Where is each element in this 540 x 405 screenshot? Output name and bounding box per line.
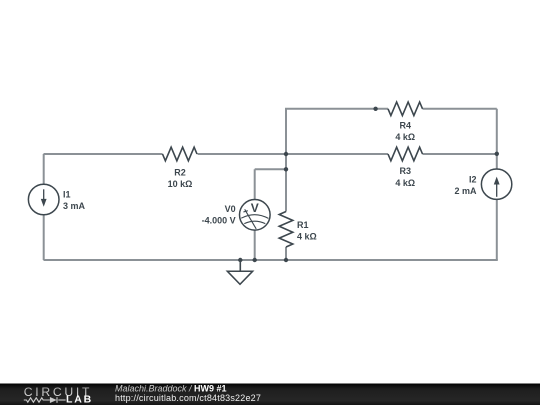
svg-text:3 mA: 3 mA	[63, 201, 86, 211]
svg-text:LAB: LAB	[66, 394, 93, 405]
svg-text:R3: R3	[400, 166, 412, 176]
svg-text:4 kΩ: 4 kΩ	[297, 232, 317, 242]
svg-text:10 kΩ: 10 kΩ	[168, 179, 193, 189]
svg-text:4 kΩ: 4 kΩ	[395, 178, 415, 188]
svg-text:V: V	[251, 201, 259, 215]
svg-text:V0: V0	[225, 204, 236, 214]
svg-text:I1: I1	[63, 189, 71, 199]
svg-text:4 kΩ: 4 kΩ	[395, 132, 415, 142]
svg-text:R1: R1	[297, 220, 309, 230]
svg-text:R2: R2	[174, 167, 186, 177]
svg-text:http://circuitlab.com/ct84t83s: http://circuitlab.com/ct84t83s22e27	[115, 393, 261, 403]
svg-text:-4.000 V: -4.000 V	[202, 216, 236, 226]
svg-text:I2: I2	[469, 174, 477, 184]
svg-text:R4: R4	[400, 120, 412, 130]
svg-text:2 mA: 2 mA	[454, 186, 477, 196]
svg-text:Malachi.Braddock / HW9 #1: Malachi.Braddock / HW9 #1	[115, 384, 227, 394]
